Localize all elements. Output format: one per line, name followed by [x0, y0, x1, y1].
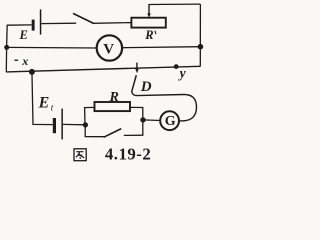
wire x node down to battery Et	[32, 74, 53, 124]
node lower-left junction	[83, 122, 88, 127]
rheostat R' wiper arrow shaft	[148, 5, 150, 15]
svg-text:G: G	[165, 114, 176, 129]
svg-text:D: D	[140, 79, 152, 95]
wire node to galvanometer left lead	[143, 119, 161, 122]
wire voltmeter left lead	[7, 46, 97, 49]
caption hanzi tu (drawn glyph)	[74, 149, 86, 161]
wire switch S2 right lead	[124, 134, 144, 136]
wire battery Et to lower-left node	[63, 123, 86, 125]
svg-text:x: x	[21, 54, 28, 68]
jockey D arrow shaft	[136, 63, 138, 70]
wire resistor R right lead	[130, 107, 143, 135]
resistor R body	[95, 102, 131, 111]
node x junction	[29, 69, 35, 75]
switch S2 blade (bottom)	[104, 129, 122, 138]
svg-text:R: R	[109, 90, 119, 105]
jockey D handle	[132, 75, 137, 92]
voltmeter V body	[97, 35, 122, 60]
wire switch to rheostat R'	[93, 22, 131, 25]
svg-text:4.19-2: 4.19-2	[105, 145, 151, 164]
wire left vertical (top corner to node and down to x-y wire)	[5, 25, 8, 73]
battery E short plate	[32, 20, 35, 31]
svg-text:y: y	[178, 66, 187, 81]
svg-text:R: R	[144, 28, 153, 42]
wire jockey D to galvanometer (hook)	[132, 92, 197, 121]
battery E long plate	[40, 9, 42, 34]
svg-text:E: E	[19, 28, 28, 42]
wire voltmeter right lead	[123, 47, 201, 48]
slide wire x-y	[6, 66, 200, 72]
node right (V tap on right vertical)	[198, 44, 204, 50]
wire right vertical	[199, 4, 201, 67]
node left (V tap)	[4, 45, 9, 50]
wire battery E to switch	[41, 22, 76, 24]
rheostat R' wiper arrowhead	[147, 13, 151, 17]
wire wiper to top right corner	[148, 3, 200, 5]
node y marker	[174, 64, 179, 69]
wire lower-left node up to resistor R	[85, 107, 95, 125]
battery Et long plate	[61, 109, 63, 140]
galvanometer G body	[160, 111, 179, 130]
jockey D arrowhead	[135, 69, 139, 73]
rheostat R' body	[131, 18, 165, 28]
switch S1 blade (top)	[73, 13, 94, 23]
wire battery E left lead	[7, 24, 32, 26]
node lower-right junction	[140, 117, 145, 122]
battery Et short plate	[53, 118, 56, 133]
wire lower-left node down to switch S2	[85, 125, 104, 137]
svg-text:V: V	[103, 41, 114, 57]
svg-text:E: E	[38, 94, 50, 111]
label dash before x	[14, 60, 18, 61]
